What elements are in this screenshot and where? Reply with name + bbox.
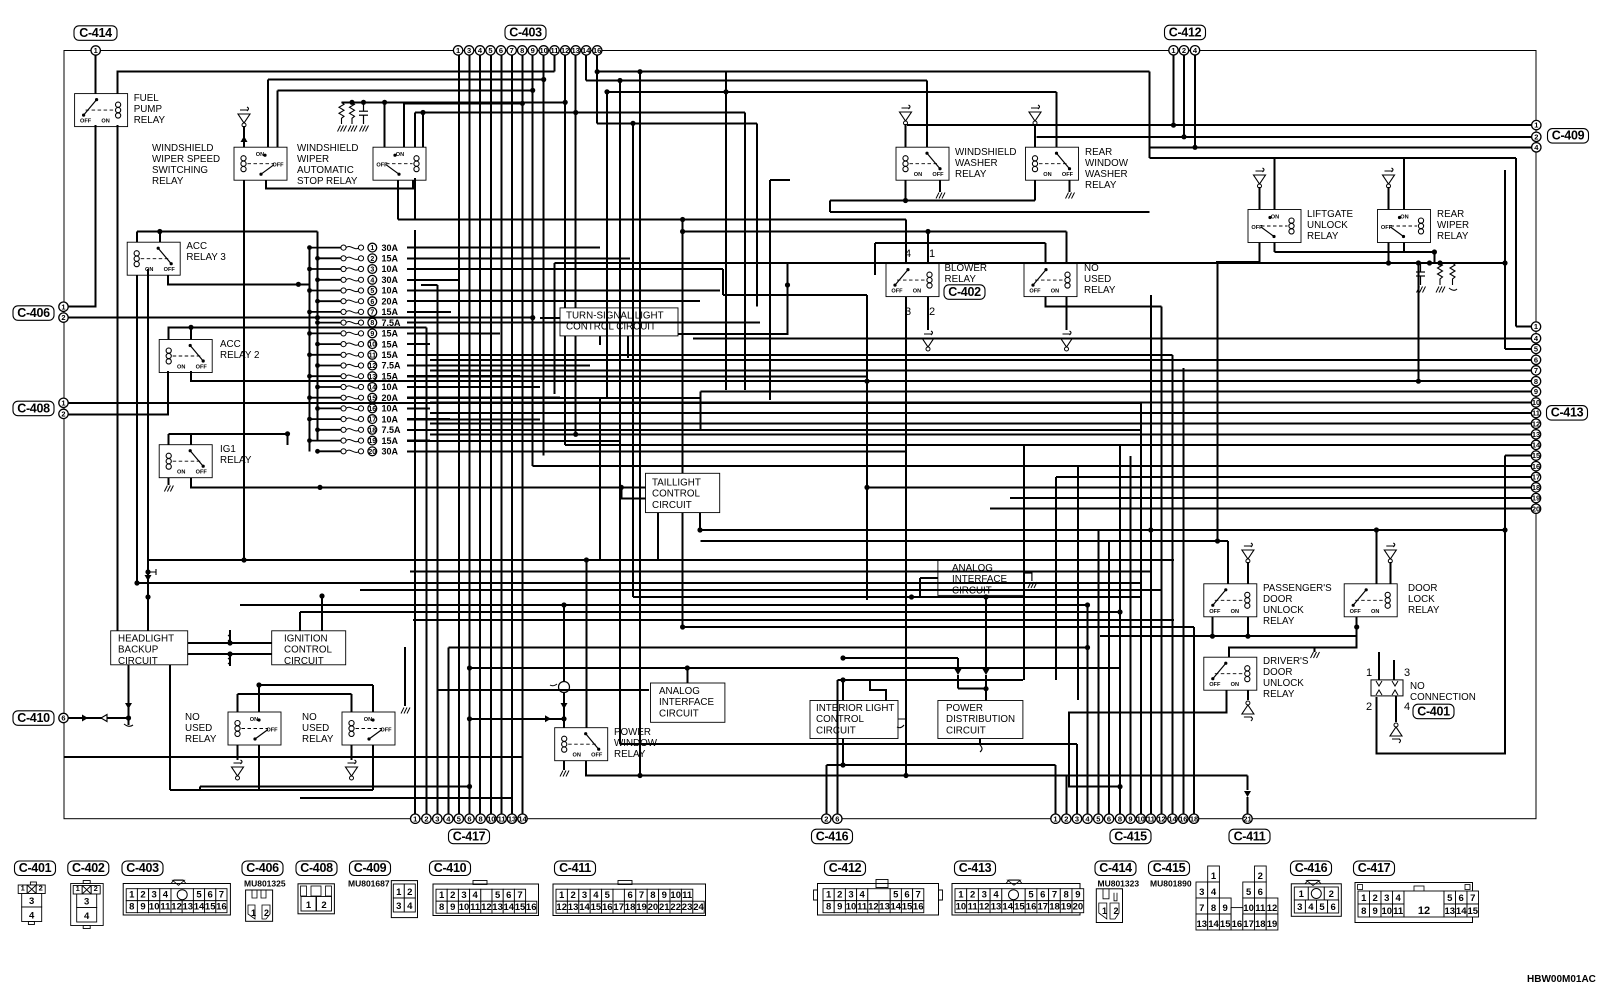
connector table C-410 <box>433 884 539 916</box>
connector label C-413 <box>1547 406 1588 421</box>
svg-text:ON: ON <box>364 717 372 723</box>
wire fuse 3 output <box>407 268 723 270</box>
svg-text:2: 2 <box>824 814 828 823</box>
wire <box>237 745 239 760</box>
wire <box>1069 180 1071 192</box>
wire C-403 pin16 <box>596 55 598 123</box>
junction <box>315 315 320 320</box>
wire <box>470 718 565 720</box>
relay NO USED RELAY <box>1024 264 1077 297</box>
fuse 8 7.5A <box>318 322 341 324</box>
svg-text:17: 17 <box>1532 473 1540 482</box>
wire <box>1395 696 1397 722</box>
wire C-415 pin6 <box>1108 541 1110 814</box>
wire fuel pump to C-403 pin11 <box>118 71 555 93</box>
wire <box>277 90 279 147</box>
junction <box>680 229 685 234</box>
svg-text:WIPER: WIPER <box>297 154 329 165</box>
svg-text:2: 2 <box>837 890 842 901</box>
wire <box>190 327 192 339</box>
svg-text:5: 5 <box>457 814 461 823</box>
svg-text:15: 15 <box>1468 906 1479 917</box>
svg-text:CIRCUIT: CIRCUIT <box>284 656 324 667</box>
svg-text:C-414: C-414 <box>1099 861 1132 875</box>
wire <box>1066 232 1068 264</box>
svg-text:15: 15 <box>1532 451 1540 460</box>
svg-text:10: 10 <box>1382 906 1393 917</box>
wire fuse 11 output <box>407 354 1173 356</box>
wire C-413 pin18 <box>867 486 1531 488</box>
svg-text:C-402: C-402 <box>72 861 105 875</box>
svg-text:15A: 15A <box>382 350 399 360</box>
pin 10 <box>368 340 377 349</box>
pin 1 <box>1531 322 1540 331</box>
svg-text:17: 17 <box>368 417 376 424</box>
wire <box>532 55 534 466</box>
svg-text:WINDSHIELD: WINDSHIELD <box>297 143 359 154</box>
svg-text:5: 5 <box>495 890 501 901</box>
pin 10 <box>1531 398 1540 407</box>
svg-text:RELAY: RELAY <box>152 176 184 187</box>
svg-text:C-410: C-410 <box>17 711 50 725</box>
svg-text:3: 3 <box>396 901 401 912</box>
wire <box>1077 466 1079 700</box>
wire <box>360 589 1162 591</box>
wire <box>136 500 138 583</box>
wire <box>1375 530 1377 584</box>
svg-text:MU801890: MU801890 <box>1150 879 1192 889</box>
wire C-413 pin16 <box>533 465 1532 467</box>
wire fuse 4 output <box>407 279 460 281</box>
svg-text:8: 8 <box>1118 814 1122 823</box>
wire C-413 pin19 <box>1010 497 1531 499</box>
wire C-413 pin15 <box>1505 455 1531 457</box>
svg-text:OFF: OFF <box>164 267 176 273</box>
wire <box>985 675 987 701</box>
relay BLOWER RELAY <box>886 264 939 297</box>
svg-text:7: 7 <box>639 890 644 901</box>
svg-text:7: 7 <box>517 890 522 901</box>
svg-text:9: 9 <box>1128 814 1132 823</box>
junction <box>145 569 150 574</box>
svg-text:ON: ON <box>256 152 264 158</box>
wire <box>770 179 790 181</box>
wire <box>639 490 641 776</box>
wire <box>407 354 1140 356</box>
wire C-415 pin16 <box>1182 368 1184 814</box>
svg-text:18: 18 <box>1049 902 1060 913</box>
pin 16 <box>593 46 602 55</box>
connector table C-412 <box>818 884 939 916</box>
svg-text:14: 14 <box>1532 441 1541 450</box>
svg-text:5: 5 <box>1447 893 1453 904</box>
pin 1 <box>453 46 462 55</box>
pin 6 <box>1531 355 1540 364</box>
pin 4 <box>444 814 453 823</box>
connector table C-401 <box>30 882 36 885</box>
svg-text:3: 3 <box>370 267 374 274</box>
relay NO USED RELAY A <box>228 712 281 745</box>
diode <box>955 669 962 675</box>
chassis ground <box>164 486 173 492</box>
svg-text:18: 18 <box>625 902 636 913</box>
fuse 6 20A <box>318 300 341 302</box>
svg-text:NO: NO <box>1084 263 1099 274</box>
wire <box>586 761 1248 776</box>
svg-text:18: 18 <box>1255 919 1266 930</box>
wire <box>259 684 373 686</box>
svg-text:6: 6 <box>506 890 511 901</box>
svg-text:14: 14 <box>1208 919 1219 930</box>
relay NO USED RELAY B <box>342 712 395 745</box>
svg-text:BLOWER: BLOWER <box>945 263 987 274</box>
svg-text:1: 1 <box>396 887 402 898</box>
wire <box>585 560 587 728</box>
pin 18 <box>1189 814 1198 823</box>
wire <box>985 595 987 597</box>
wire fuse 13 output <box>407 375 520 377</box>
svg-text:10A: 10A <box>382 382 399 392</box>
wire <box>723 294 867 296</box>
svg-text:1: 1 <box>1211 871 1217 882</box>
svg-text:STOP RELAY: STOP RELAY <box>297 176 358 187</box>
wire <box>117 125 119 630</box>
connector label C-408 <box>13 401 54 416</box>
svg-text:CIRCUIT: CIRCUIT <box>946 725 986 736</box>
pin 19 <box>1531 493 1540 502</box>
relay ACC RELAY 3 <box>127 242 180 275</box>
svg-text:C-401: C-401 <box>19 861 52 875</box>
junction <box>561 602 566 607</box>
junction <box>619 485 624 490</box>
ground <box>1029 105 1041 125</box>
fuse 20 30A <box>318 450 341 452</box>
junction <box>903 773 908 778</box>
wire <box>407 376 867 378</box>
wire <box>905 297 907 776</box>
wire <box>563 693 565 719</box>
wire C-413 pin5 <box>1505 348 1531 350</box>
svg-text:INTERIOR LIGHT: INTERIOR LIGHT <box>816 703 894 714</box>
svg-text:OFF: OFF <box>591 753 603 759</box>
svg-text:C-408: C-408 <box>17 401 50 415</box>
pin 4 <box>1083 814 1092 823</box>
wire <box>979 739 981 746</box>
svg-text:10A: 10A <box>382 404 399 414</box>
wire <box>1403 243 1405 253</box>
wire <box>458 55 460 814</box>
relay LIFTGATE UNLOCK RELAY <box>1248 210 1301 243</box>
svg-text:UNLOCK: UNLOCK <box>1263 678 1304 689</box>
pin 17 <box>1531 472 1540 481</box>
pin 16 <box>368 404 377 413</box>
wire <box>543 55 545 455</box>
svg-text:10: 10 <box>846 902 857 913</box>
wire <box>425 327 427 814</box>
svg-text:RELAY: RELAY <box>614 749 646 760</box>
svg-text:10: 10 <box>487 814 495 823</box>
svg-text:AUTOMATIC: AUTOMATIC <box>297 165 354 176</box>
fuse 3 10A <box>310 268 341 270</box>
wire <box>287 434 289 445</box>
junction <box>573 432 578 437</box>
wire <box>188 653 272 655</box>
svg-text:6: 6 <box>370 299 374 306</box>
wire <box>372 685 374 712</box>
svg-text:1: 1 <box>61 398 65 407</box>
wire liftgate out to passenger relay <box>1217 262 1219 541</box>
svg-text:16: 16 <box>593 46 601 55</box>
svg-text:19: 19 <box>1061 902 1072 913</box>
pin 17 <box>368 415 377 424</box>
wire <box>1088 626 1101 628</box>
wire fuse 16 output <box>407 407 430 409</box>
pin 18 <box>1531 483 1540 492</box>
fuse 19 15A <box>310 440 341 442</box>
fuse 2 15A <box>318 257 341 259</box>
wire <box>563 605 565 682</box>
connector table C-411 <box>553 884 706 916</box>
svg-text:17: 17 <box>613 902 624 913</box>
svg-text:C-408: C-408 <box>300 861 333 875</box>
svg-text:C-403: C-403 <box>509 25 542 39</box>
junction <box>840 677 845 682</box>
svg-text:CONTROL: CONTROL <box>652 489 700 500</box>
pin 20 <box>1531 504 1540 513</box>
wire <box>240 604 1088 606</box>
svg-text:7.5A: 7.5A <box>382 425 402 435</box>
svg-text:1: 1 <box>1053 814 1057 823</box>
svg-text:5: 5 <box>893 890 899 901</box>
svg-text:8: 8 <box>1534 377 1538 386</box>
svg-text:12: 12 <box>556 902 567 913</box>
junction <box>1117 784 1122 789</box>
wire <box>437 689 649 691</box>
connector label C-406 <box>242 861 283 876</box>
pin 10 <box>539 46 548 55</box>
svg-text:OFF: OFF <box>932 172 944 178</box>
chassis ground <box>1066 193 1075 199</box>
wire <box>870 680 886 701</box>
svg-text:22: 22 <box>670 902 681 913</box>
svg-text:C-415: C-415 <box>1153 861 1186 875</box>
wire <box>470 667 1121 669</box>
svg-text:3: 3 <box>1404 667 1410 679</box>
pin 13 <box>1531 430 1540 439</box>
svg-text:15: 15 <box>1014 902 1025 913</box>
svg-text:DRIVER'S: DRIVER'S <box>1263 656 1309 667</box>
pin 2 <box>368 254 377 263</box>
svg-text:3: 3 <box>582 890 587 901</box>
diode <box>561 703 568 709</box>
svg-text:USED: USED <box>1084 274 1111 285</box>
pin 6 <box>368 297 377 306</box>
svg-text:CONNECTION: CONNECTION <box>1410 692 1476 703</box>
resistor <box>339 102 344 124</box>
svg-text:ON: ON <box>1271 215 1279 221</box>
svg-text:BACKUP: BACKUP <box>118 645 159 656</box>
wire <box>167 478 169 485</box>
chassis ground <box>1028 582 1037 588</box>
svg-text:TAILLIGHT: TAILLIGHT <box>652 478 701 489</box>
wire <box>919 578 921 597</box>
wire <box>826 764 1055 766</box>
fuse 12 7.5A <box>318 365 341 367</box>
svg-text:14: 14 <box>518 814 527 823</box>
svg-text:3: 3 <box>29 896 34 907</box>
pin 7 <box>1531 366 1540 375</box>
wire <box>191 371 430 381</box>
wire <box>1247 690 1249 700</box>
wire <box>682 220 684 474</box>
connector label C-409 <box>1548 129 1589 144</box>
wire <box>1046 297 1162 307</box>
pin 8 <box>1115 814 1124 823</box>
wire <box>1417 263 1419 381</box>
junction <box>157 229 162 234</box>
svg-text:14: 14 <box>579 902 590 913</box>
wire <box>372 745 374 790</box>
junction <box>1432 249 1437 254</box>
svg-text:RELAY: RELAY <box>1084 285 1116 296</box>
connector label C-413 <box>955 861 996 876</box>
connector label C-409 <box>350 861 391 876</box>
wire <box>511 55 513 814</box>
wire <box>866 295 868 600</box>
wire <box>563 761 565 770</box>
svg-text:C-402: C-402 <box>948 285 981 299</box>
svg-text:16: 16 <box>1232 919 1243 930</box>
wire <box>926 81 928 148</box>
svg-text:13: 13 <box>572 46 580 55</box>
wire C-408 pin2 <box>64 371 168 414</box>
svg-text:ON: ON <box>1371 609 1379 615</box>
junction <box>349 100 354 105</box>
svg-text:20A: 20A <box>382 296 399 306</box>
wire driver relay out to C-415 pin8 <box>1069 690 1227 786</box>
wire C-413 pin13 <box>430 433 1531 435</box>
wire C-415 pin3 <box>1076 744 1078 814</box>
pin 1 <box>411 814 420 823</box>
pin 7 <box>507 46 516 55</box>
svg-text:LIFTGATE: LIFTGATE <box>1307 209 1354 220</box>
wire <box>599 336 601 345</box>
wire <box>479 55 481 814</box>
svg-text:7: 7 <box>1199 903 1204 914</box>
connector label C-417 <box>1354 861 1395 876</box>
svg-text:MU801323: MU801323 <box>1098 879 1140 889</box>
svg-text:20: 20 <box>368 449 376 456</box>
junction <box>864 485 869 490</box>
svg-text:15: 15 <box>591 902 602 913</box>
svg-text:1: 1 <box>456 46 460 55</box>
svg-text:1: 1 <box>1366 667 1372 679</box>
svg-text:4: 4 <box>1211 887 1217 898</box>
pin 4 <box>1532 143 1541 152</box>
junction <box>573 110 578 115</box>
svg-text:15: 15 <box>205 902 216 913</box>
svg-text:CIRCUIT: CIRCUIT <box>659 708 699 719</box>
svg-text:14: 14 <box>368 385 376 392</box>
wire <box>1034 124 1036 147</box>
wire <box>683 231 1067 233</box>
junction <box>1215 538 1220 543</box>
fuse 4 30A <box>318 279 341 281</box>
svg-text:4: 4 <box>29 911 35 922</box>
svg-text:6: 6 <box>1459 893 1464 904</box>
pin 11 <box>1531 408 1540 417</box>
svg-text:6: 6 <box>1534 355 1538 364</box>
relay REAR WIPER RELAY <box>1378 210 1431 243</box>
connector label C-414 <box>74 26 117 41</box>
svg-text:2: 2 <box>450 890 455 901</box>
pigtail <box>228 635 230 641</box>
pin 8 <box>368 318 377 327</box>
wire <box>1056 92 1058 147</box>
svg-text:C-414: C-414 <box>79 26 112 40</box>
fuse 16 10A <box>318 407 341 409</box>
connector label C-415 <box>1149 861 1190 876</box>
wire <box>200 786 470 788</box>
svg-text:DISTRIBUTION: DISTRIBUTION <box>946 714 1015 725</box>
svg-text:1: 1 <box>129 890 135 901</box>
wire <box>1066 297 1068 330</box>
ground <box>1384 543 1396 563</box>
junction <box>1085 645 1090 650</box>
svg-text:13: 13 <box>1532 430 1540 439</box>
svg-text:1: 1 <box>559 890 565 901</box>
svg-text:10: 10 <box>459 902 470 913</box>
junction <box>134 580 139 585</box>
svg-text:1: 1 <box>1171 46 1175 55</box>
svg-text:1: 1 <box>929 248 935 260</box>
svg-text:15: 15 <box>902 902 913 913</box>
wire <box>469 55 471 814</box>
svg-text:9: 9 <box>140 902 145 913</box>
svg-text:2: 2 <box>407 887 412 898</box>
pin 1 <box>91 46 100 55</box>
svg-text:7: 7 <box>1052 890 1057 901</box>
pin 3 <box>433 814 442 823</box>
pin 5 <box>454 814 463 823</box>
wire <box>1247 617 1249 636</box>
svg-text:12: 12 <box>979 902 990 913</box>
wire <box>403 103 405 147</box>
wire <box>837 679 1023 681</box>
wire <box>117 630 119 632</box>
wire <box>607 91 1057 93</box>
svg-text:16: 16 <box>368 406 376 413</box>
svg-text:OFF: OFF <box>1029 289 1041 295</box>
wire <box>351 694 353 712</box>
svg-text:9: 9 <box>531 46 535 55</box>
junction <box>1181 134 1186 139</box>
svg-text:4: 4 <box>163 890 169 901</box>
svg-text:OFF: OFF <box>266 728 278 734</box>
wire <box>447 648 449 815</box>
junction <box>126 715 131 720</box>
wire C-413 pin17 <box>1056 476 1531 478</box>
wire C-414 pin1 <box>95 55 97 93</box>
wire <box>1216 261 1260 263</box>
pin 13 <box>507 814 516 823</box>
chassis ground <box>1436 287 1445 293</box>
wire <box>448 647 1087 649</box>
wire <box>597 122 757 124</box>
connector label C-412 <box>825 861 866 876</box>
wire <box>243 126 245 147</box>
wire <box>128 718 130 725</box>
